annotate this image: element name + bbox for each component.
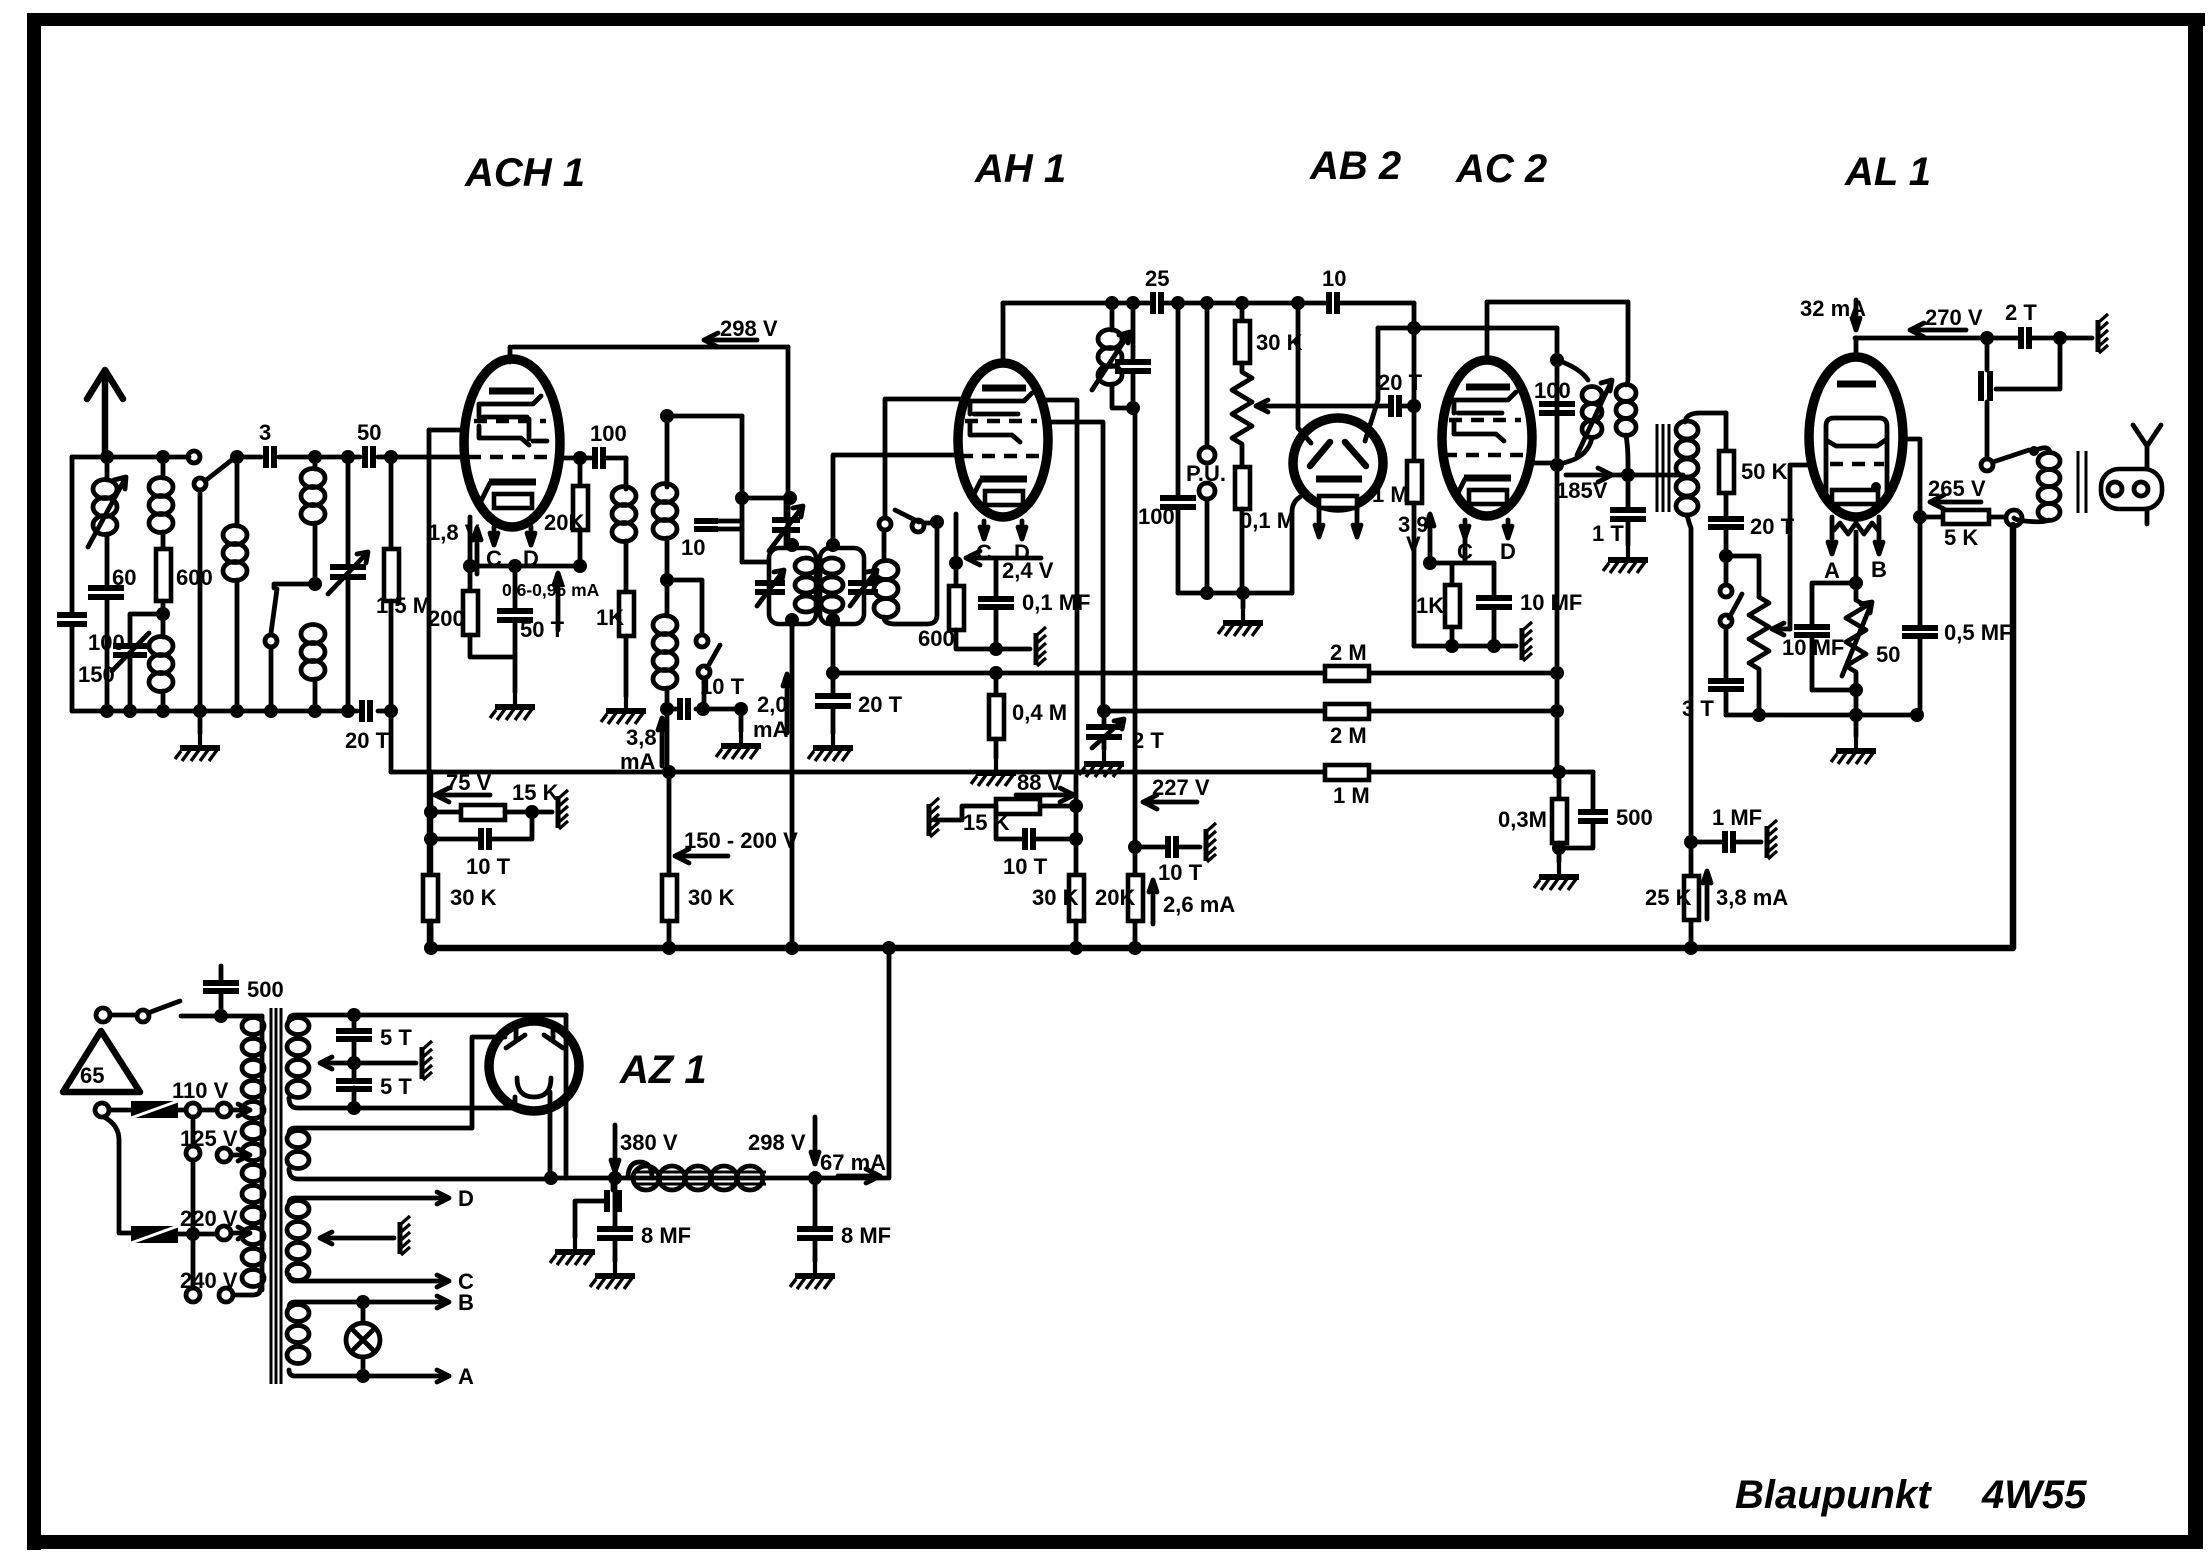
tube AB2 envelope [1293, 418, 1383, 508]
switch (coil tap) [274, 584, 315, 588]
arrow 270V [1910, 323, 1966, 337]
inductor (osc coupling coil) [874, 561, 898, 580]
wire: detector bottom node [1178, 591, 1292, 596]
potentiometer zigzag [1232, 363, 1252, 467]
arrow 265V [1930, 495, 1981, 509]
svg-text:B: B [458, 1290, 474, 1315]
arrow 3,9V [1426, 514, 1434, 560]
resistor 1K [619, 592, 634, 636]
svg-text:2,0: 2,0 [757, 692, 788, 717]
svg-text:0,6-0,96 mA: 0,6-0,96 mA [502, 580, 600, 600]
capacitor 10 (series) [1329, 292, 1337, 314]
capacitor 10T (osc padder) [667, 707, 741, 712]
inductor (osc transformer winding 1) [612, 487, 636, 506]
AC2 interior: heater box [1469, 490, 1507, 504]
AB2 interior: diode plates [1310, 442, 1330, 466]
capacitor 10MF [1492, 563, 1497, 646]
wire: AL1 screen lead [1901, 439, 1920, 628]
svg-text:1 M: 1 M [1333, 783, 1370, 808]
ACH1 interior: mid grid structure [479, 426, 529, 445]
svg-text:3 T: 3 T [1682, 696, 1714, 721]
transformer primary winding [260, 1016, 265, 1290]
AH1 interior: upper grid structure [970, 393, 1032, 414]
inductor (RF coil 2 lower) [301, 625, 325, 644]
resistor 600 (AH1 cathode) [949, 586, 964, 630]
AL1 interior: cathode box [1832, 490, 1878, 504]
wire: osc vertical to 75V line [665, 709, 670, 772]
svg-text:240 V: 240 V [180, 1268, 238, 1293]
capacitor 100 [1160, 498, 1196, 507]
AC2 interior: upper grid structure [1454, 392, 1516, 413]
resistor 0,4M [994, 673, 999, 695]
potentiometer (tone) zigzag [1726, 556, 1759, 597]
svg-text:mA: mA [753, 717, 789, 742]
svg-text:3: 3 [259, 420, 271, 445]
svg-text:5 K: 5 K [1944, 525, 1978, 550]
wire: AL1 plate line [1855, 336, 2092, 341]
fuse 1 [95, 1103, 109, 1117]
capacitor 1MF [1684, 835, 1698, 849]
wire: coupling down to coil [624, 458, 629, 489]
transformer core [271, 1008, 281, 1384]
wire: cathode node [470, 564, 580, 569]
capacitor 60 [88, 588, 124, 597]
svg-text:30 K: 30 K [1032, 885, 1079, 910]
net A arrow [437, 1370, 449, 1382]
resistor 1M (in screen line) [1325, 765, 1369, 780]
wire: AL1 plate lead [1854, 338, 1859, 359]
mains switch [96, 1008, 110, 1022]
inductor (RF coil) [235, 457, 240, 526]
svg-text:Blaupunkt: Blaupunkt [1735, 1473, 1932, 1517]
svg-text:200: 200 [428, 606, 465, 631]
speaker frame lead [2133, 425, 2161, 524]
arrow 32 mA [1852, 300, 1860, 330]
pin lead right of AB2 [1353, 508, 1361, 537]
tube AH1 envelope [958, 363, 1048, 517]
svg-text:30 K: 30 K [1256, 330, 1303, 355]
node dot [230, 450, 244, 464]
svg-text:1 M: 1 M [1372, 482, 1409, 507]
svg-text:0,1 M: 0,1 M [1240, 508, 1295, 533]
wire: screen feed line (1M AVC line) [391, 770, 1593, 775]
wire: osc tank down to 227V vertical [1133, 408, 1138, 952]
arrow 88V [1016, 788, 1074, 802]
tap arrow to AL1 grid [1772, 623, 1790, 635]
svg-text:100: 100 [1534, 378, 1571, 403]
wire: secondary top to AH1 grid [833, 455, 958, 545]
arrow 227V [1143, 795, 1197, 809]
resistor 20K [578, 458, 583, 486]
svg-text:227 V: 227 V [1152, 775, 1210, 800]
tube AL1 envelope [1809, 357, 1903, 517]
trimmer capacitor (osc) [742, 496, 790, 501]
pin C of AC2 [1461, 520, 1469, 538]
svg-text:10 MF: 10 MF [1782, 635, 1844, 660]
svg-text:8 MF: 8 MF [841, 1223, 891, 1248]
ACH1 interior: dashed grid row [474, 419, 546, 423]
svg-text:150 - 200 V: 150 - 200 V [684, 828, 798, 853]
svg-text:298 V: 298 V [720, 316, 778, 341]
svg-text:1 T: 1 T [1592, 521, 1624, 546]
capacitor 500 (mains) [219, 966, 224, 1016]
antenna symbol [87, 370, 123, 455]
wire: AC2 plate lead [1485, 302, 1490, 362]
ground [808, 733, 853, 761]
wire: coupling coil top to AH1 [885, 399, 965, 518]
wire: primary bottom to bus [790, 624, 795, 952]
wire: volume tap line to 20T [1268, 404, 1387, 409]
AC2 interior: dashed grid row [1449, 418, 1521, 422]
resistor 200 [468, 566, 473, 591]
svg-text:67 mA: 67 mA [820, 1150, 886, 1175]
resistor 1M (grid leak) [1407, 399, 1421, 413]
arrow 1,8V (cathode voltage) [468, 517, 473, 566]
AH1 interior: cathode bar [980, 476, 1027, 483]
svg-text:1K: 1K [596, 605, 624, 630]
ACH1 interior: dashed grid row 2 (grid line through) [468, 455, 552, 459]
capacitor 10T (left) [424, 832, 438, 846]
AC2 interior: dashed grid row 2 [1444, 453, 1527, 457]
node dot [308, 450, 322, 464]
IF can secondary box [820, 548, 864, 624]
svg-text:20 T: 20 T [345, 728, 390, 753]
triangle 65 [63, 1031, 140, 1092]
loudspeaker [2101, 469, 2162, 509]
AL1 interior: dashed grid row [1830, 462, 1884, 466]
arrow 2,6 mA [1149, 880, 1157, 924]
capacitor 5T (upper) [347, 1008, 361, 1022]
resistor 50K (detector load) [1724, 413, 1729, 451]
svg-text:D: D [1500, 539, 1516, 564]
inductor (detector secondary) [1685, 413, 1726, 422]
wire: AL1 cathode bottom line [1726, 713, 1917, 718]
svg-text:AH 1: AH 1 [974, 147, 1066, 191]
resistor 30K (left) [423, 875, 438, 921]
resistor 15K (right) [996, 799, 1040, 814]
arrow 185V [1566, 468, 1612, 482]
svg-text:10: 10 [1322, 266, 1346, 291]
svg-text:AC 2: AC 2 [1455, 147, 1547, 191]
ground [601, 696, 646, 724]
wire: AB2 anode 1 from top bus [1291, 296, 1305, 310]
chassis ground [2098, 314, 2108, 353]
capacitor 100 (ACH1 coupling) [595, 447, 603, 469]
svg-text:15 K: 15 K [512, 780, 559, 805]
svg-text:1,5 M: 1,5 M [376, 593, 431, 618]
arrow 298V [704, 333, 757, 347]
wire: main bottom bus [430, 525, 2013, 948]
terminals P.U. [1200, 296, 1214, 310]
pin D of AH1 [1018, 521, 1026, 539]
ACH1 interior: heater box [494, 494, 532, 508]
AL1 heater pins A and B [1828, 517, 1836, 554]
ground [739, 709, 744, 731]
svg-text:125 V: 125 V [180, 1126, 238, 1151]
AZ1 interior: anode plates [506, 1023, 525, 1048]
pin D of ACH1 [527, 527, 535, 545]
svg-text:0,4 M: 0,4 M [1012, 700, 1067, 725]
svg-text:10 T: 10 T [1158, 860, 1203, 885]
wire: left column [70, 457, 75, 711]
svg-text:30 K: 30 K [450, 885, 497, 910]
svg-text:D: D [458, 1186, 474, 1211]
wire: AB2 anode 2 lead [1365, 328, 1378, 441]
svg-text:4W55: 4W55 [1981, 1473, 2087, 1517]
svg-text:265 V: 265 V [1928, 476, 1986, 501]
AC2 interior: plate bar [1466, 384, 1510, 391]
capacitor (osc tank padding) [1126, 296, 1140, 310]
svg-text:185V: 185V [1556, 478, 1608, 503]
AH1 interior: plate bar [982, 385, 1026, 392]
transformer core [2078, 451, 2086, 513]
wire: 298V dropper vertical [786, 347, 791, 545]
resistor 0,1M [1235, 467, 1250, 509]
capacitor 25 (series) [1153, 292, 1161, 314]
svg-text:15 K: 15 K [963, 810, 1010, 835]
inductor (antenna coil 2) [161, 457, 166, 478]
ground [490, 692, 535, 720]
resistor 20K [1128, 875, 1143, 921]
capacitor 3T [1708, 681, 1744, 689]
variable inductor (antenna coil) [105, 457, 110, 480]
node dot [384, 450, 398, 464]
svg-text:AZ 1: AZ 1 [619, 1048, 707, 1092]
resistor 30K (osc anode) [662, 875, 677, 921]
arrow 380V [611, 1125, 619, 1172]
svg-text:10: 10 [681, 535, 705, 560]
trimmer capacitor 2T [1102, 711, 1107, 749]
chassis ground [1036, 627, 1046, 666]
AZ1 interior: cathode arc [517, 1078, 551, 1097]
wire: 298V plate line [513, 345, 788, 350]
node dot cathode [463, 559, 477, 573]
svg-text:AL 1: AL 1 [1844, 150, 1931, 194]
capacitor 5T (lower) [352, 1063, 357, 1108]
wire: AB2 cathode to bottom node [1292, 497, 1300, 593]
svg-text:A: A [1824, 558, 1840, 583]
inductor (RF coil 2 upper) [313, 457, 318, 469]
arrow 298V (output) [811, 1117, 819, 1164]
AL1 interior: plate bar [1837, 381, 1876, 388]
wire: cathode network bottom [1414, 644, 1516, 649]
secondary winding 2 (HV) [289, 1128, 472, 1134]
svg-text:600: 600 [176, 565, 213, 590]
inductor (antenna coil 3) [149, 637, 173, 656]
svg-text:270 V: 270 V [1925, 305, 1983, 330]
arrow 0,6-0,96 mA [554, 573, 562, 630]
secondary winding 3 (bias) [289, 1198, 443, 1204]
wire: cathode center tap [1854, 532, 1859, 583]
capacitor 2T [2021, 327, 2029, 349]
resistor 1K (AC2 cathode) [1450, 563, 1455, 585]
resistor 0,3M + capacitor 500 [1552, 765, 1566, 779]
AH1 interior: heater box [985, 491, 1023, 505]
inductor (secondary) [1626, 302, 1628, 385]
wire: top bus [1003, 301, 1414, 306]
capacitor 20T [1724, 493, 1729, 556]
AL1 interior: screen box [1826, 418, 1887, 493]
capacitor 1T [1626, 475, 1631, 545]
svg-text:600: 600 [918, 626, 955, 651]
secondary winding 1 (AZ1 heater) [289, 1015, 566, 1021]
capacitor 100 (antenna series) [57, 615, 87, 624]
wire: ACH1 plate lead [508, 347, 513, 362]
svg-text:2 M: 2 M [1330, 640, 1367, 665]
resistor 5K [1920, 515, 1943, 520]
svg-text:5 T: 5 T [380, 1074, 412, 1099]
switch (speaker) [1981, 459, 1993, 471]
wire: AH1 grid2 to AVC2 [1045, 422, 1103, 711]
svg-text:60: 60 [112, 565, 136, 590]
trimmer on secondary [848, 583, 878, 592]
winding 1 center tap to ground [320, 1057, 416, 1069]
variable inductor (primary, tuned) [1557, 360, 1588, 380]
svg-text:50: 50 [357, 420, 381, 445]
wire: AC2 grid2 to 1557 vertical [1532, 461, 1557, 466]
oscillator coupling coil at AH1 [879, 518, 891, 530]
AVC line 1 with resistor 2M [833, 671, 1558, 676]
node dot [156, 450, 170, 464]
switch (osc coil tap) [667, 580, 702, 634]
wire: cathode network bottom [1812, 688, 1856, 693]
svg-text:220 V: 220 V [180, 1206, 238, 1231]
wire: 1557 vertical [1555, 328, 1560, 772]
svg-text:380 V: 380 V [620, 1130, 678, 1155]
ground [175, 733, 220, 761]
svg-text:5 T: 5 T [380, 1025, 412, 1050]
wire: PSU riser [887, 948, 892, 1178]
variable inductor (osc tank) [1105, 296, 1119, 310]
pin lead left of AB2 [1315, 508, 1323, 537]
svg-text:110 V: 110 V [172, 1078, 229, 1103]
tap arrows into primary [231, 1104, 250, 1116]
capacitor 10T (227V) [1128, 840, 1142, 854]
net D arrow [437, 1192, 449, 1204]
output choke [1985, 338, 1990, 458]
ground [1241, 593, 1246, 608]
transformer core [1657, 424, 1669, 512]
svg-text:V: V [1406, 532, 1421, 557]
capacitor 8MF (input) [613, 1178, 618, 1261]
wire: antenna top bus [72, 455, 391, 460]
capacitor 50 (series) [365, 446, 373, 468]
winding 3 center tap to ground [320, 1232, 394, 1244]
capacitor 50T [513, 566, 518, 692]
chassis ground [1522, 622, 1532, 661]
chassis ground [532, 810, 552, 815]
tube AC2 envelope [1442, 360, 1532, 516]
net B arrow [437, 1296, 449, 1308]
wire: 100pF branch [1171, 296, 1185, 310]
svg-text:2 T: 2 T [1132, 728, 1164, 753]
capacitor 10T (right) [996, 806, 1076, 839]
svg-text:50 K: 50 K [1741, 459, 1788, 484]
wire: osc tank right leg [740, 416, 745, 562]
wire: AH1 plate lead to 25-bus [1001, 303, 1006, 365]
svg-text:ACH 1: ACH 1 [464, 151, 585, 195]
capacitor 10MF (AL1 cathode) [1812, 583, 1856, 690]
svg-text:0,3M: 0,3M [1498, 807, 1547, 832]
dial lamp [356, 1295, 370, 1309]
node 185V [1621, 468, 1635, 482]
ACH1 interior: cathode bar [489, 479, 536, 486]
switch (tone) [1724, 556, 1729, 585]
wire: osc feedback top [667, 414, 742, 419]
AH1 interior: mid grid structure [970, 423, 1020, 442]
resistor 25K [1684, 876, 1699, 920]
inductor (osc winding 2 lower) [653, 616, 677, 635]
svg-text:500: 500 [1616, 805, 1653, 830]
switch (waveband, on antenna bus) [188, 451, 200, 463]
heater zigzag [1834, 523, 1878, 534]
trimmer on primary [755, 583, 785, 592]
wire: DC output line [551, 1176, 887, 1181]
AH1 interior: dashed grid row [965, 419, 1037, 423]
svg-text:20 T: 20 T [858, 692, 903, 717]
variable trimmer capacitor [341, 450, 355, 464]
pin C of ACH1 [490, 527, 498, 545]
svg-text:10 T: 10 T [700, 674, 745, 699]
trimmer capacitor 150 [130, 614, 163, 711]
wire: antenna bottom bus [72, 709, 391, 714]
svg-text:100: 100 [1138, 504, 1175, 529]
AC2 interior: cathode bar [1464, 475, 1511, 482]
svg-text:8 MF: 8 MF [641, 1223, 691, 1248]
ACH1 interior: grid stub [529, 419, 547, 441]
resistor 1,5M [389, 457, 394, 549]
ACH1 interior: upper grid structure [479, 396, 541, 417]
arrow 75V [435, 788, 490, 802]
node dot [100, 450, 114, 464]
voltage tap terminals [191, 1117, 196, 1146]
svg-text:100: 100 [590, 421, 627, 446]
wire: AB2 anode 2 from 10-cap line [1378, 303, 1557, 461]
capacitor 20T (AVC bypass) [831, 673, 836, 733]
net C arrow [437, 1275, 449, 1287]
svg-text:2 M: 2 M [1330, 723, 1367, 748]
svg-text:10 T: 10 T [466, 854, 511, 879]
svg-text:AB 2: AB 2 [1309, 144, 1401, 188]
wire: secondary bottom to AVC line 1 [831, 624, 836, 673]
arrow 150-200V [675, 849, 728, 863]
resistor 30K (volume pot top) [1235, 296, 1249, 310]
wire: AC2 cathode node [1430, 538, 1494, 563]
fuse 2 [104, 1117, 131, 1233]
svg-text:B: B [1871, 557, 1887, 582]
IF can primary box [769, 548, 816, 624]
svg-text:65: 65 [80, 1063, 104, 1088]
svg-text:88 V: 88 V [1017, 770, 1063, 795]
tube ACH1 envelope [464, 359, 560, 527]
first filter capacitor [607, 1190, 619, 1212]
svg-text:1K: 1K [1416, 593, 1444, 618]
capacitor 20T (audio coupling) [1391, 395, 1399, 417]
wire: grid2 out to 20K [559, 456, 626, 461]
AC2 interior: mid grid structure [1454, 422, 1504, 441]
svg-text:150: 150 [78, 662, 115, 687]
svg-text:25 K: 25 K [1645, 885, 1692, 910]
svg-text:20K: 20K [1095, 885, 1135, 910]
filter choke [628, 1162, 652, 1178]
junction (speaker return) [2006, 510, 2022, 526]
wire: grid bus into ACH1 [391, 455, 465, 460]
capacitor 20T (series in bottom bus) [362, 700, 370, 722]
tap arrow on pot [1256, 400, 1268, 412]
capacitor 0,1MF [994, 558, 999, 649]
arrow 2,4V [966, 551, 1041, 565]
inductor (osc winding 2 upper) [665, 416, 670, 487]
